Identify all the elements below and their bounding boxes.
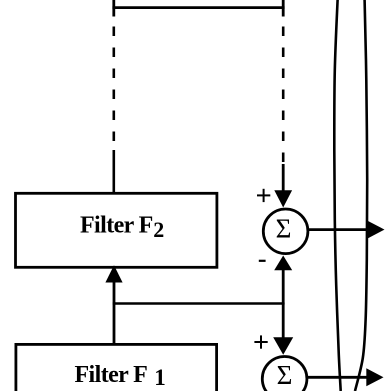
svg-text:Σ: Σ — [276, 214, 292, 244]
wire: dashed drop to upper summer — [282, 27, 285, 168]
wire: riser from Filter F1 top to Filter F2 bottom — [113, 278, 116, 344]
wire: output arrow from lower summer — [307, 376, 370, 379]
arrowhead into lower summer top — [273, 337, 293, 355]
wire: top-left vertical stub — [112, 0, 115, 17]
wire: output arrow from upper summer — [308, 228, 372, 231]
arrowhead of lower output — [366, 368, 383, 386]
box: Filter F1 (bottom cropped) — [16, 344, 217, 391]
op: lower summer circle (bottom cropped) — [262, 357, 307, 391]
op: upper summer circle — [263, 209, 308, 254]
wire: riser from junction to upper summer bottom — [282, 264, 285, 304]
label: minus sign at upper summer bottom input — [259, 260, 266, 262]
wire: top-right vertical stub — [282, 0, 285, 17]
wire: left feedback curve — [334, 0, 340, 391]
arrowhead into Filter F2 bottom — [105, 265, 122, 282]
arrowhead into upper summer bottom — [274, 256, 292, 271]
wire: solid lead into upper summer — [282, 164, 285, 196]
wire: solid lead into Filter F2 top — [113, 150, 116, 193]
arrowhead of upper output — [367, 221, 384, 239]
svg-text:Filter F2: Filter F2 — [80, 212, 164, 242]
box: Filter F2 — [16, 193, 217, 267]
wire: top horizontal bus — [112, 6, 284, 9]
svg-text:Σ: Σ — [277, 360, 293, 390]
wire: dashed drop to Filter F2 — [113, 27, 116, 153]
wire: horizontal connector from F1 riser to summer column — [113, 302, 285, 305]
wire: drop from junction to lower summer — [282, 304, 285, 343]
label: plus sign at lower summer top input — [254, 335, 267, 348]
arrowhead into upper summer top — [274, 190, 292, 207]
label: plus sign at upper summer top input — [257, 189, 270, 202]
wire: right feedback curve — [355, 0, 367, 391]
